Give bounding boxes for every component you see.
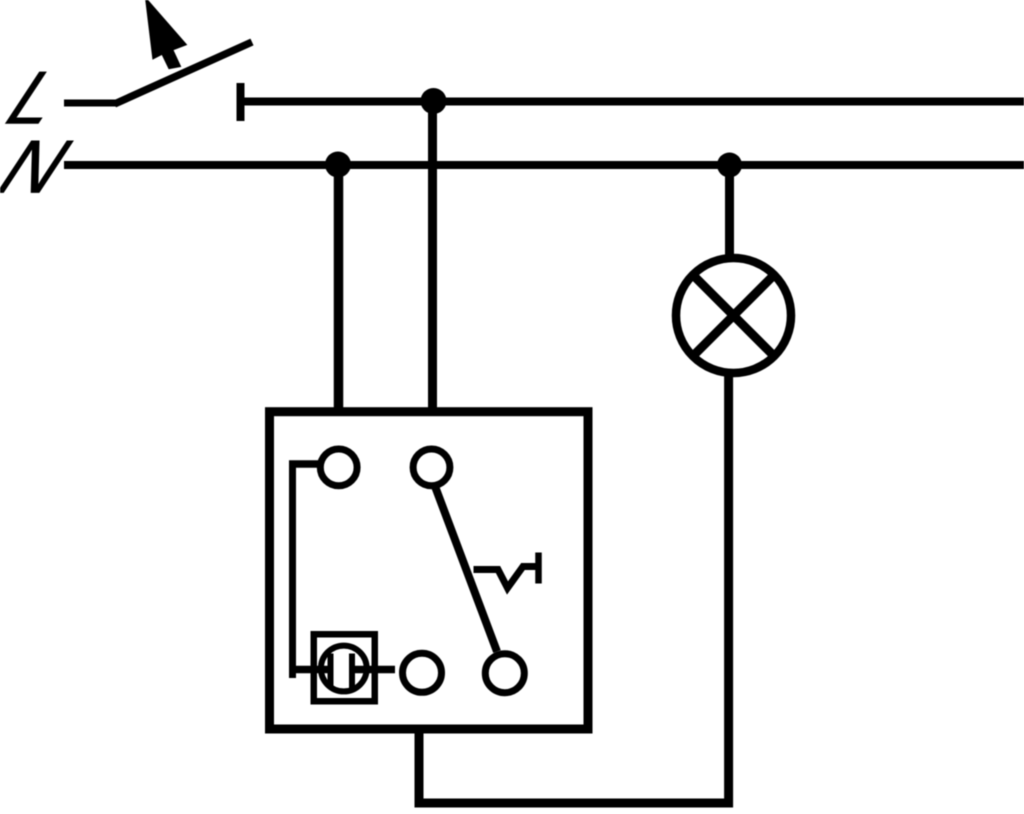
node N label	[0, 125, 82, 209]
terminal circle top-left	[320, 449, 357, 486]
glow lamp right lead	[355, 666, 395, 674]
glow lamp right electrode	[349, 654, 355, 689]
glow lamp circle	[321, 646, 367, 692]
junction dot on N rail left	[325, 152, 351, 178]
wire N rail	[64, 161, 1024, 169]
terminal circle top-right	[413, 449, 450, 486]
junction dot on L rail	[421, 88, 447, 114]
terminal circle bottom-middle	[403, 653, 442, 692]
switch insert box outline	[270, 412, 589, 729]
lamp E1 cross stroke 2	[693, 275, 774, 356]
internal wire stub from bracket to top-left terminal	[289, 460, 318, 468]
wire L lead	[64, 100, 118, 107]
terminal circle bottom-right	[485, 654, 524, 693]
glow lamp square	[314, 634, 375, 701]
wire L rail	[244, 98, 1024, 106]
detent spring symbol	[474, 567, 537, 589]
cursor arrow actuator	[147, 0, 186, 68]
glow lamp left electrode	[328, 654, 334, 689]
wire from lamp bottom down, across, and up from box bottom	[419, 372, 729, 803]
internal vertical wire bracket	[289, 461, 296, 679]
junction dot on N rail right	[717, 153, 742, 178]
switch contact lever inside box	[436, 488, 498, 652]
wire from L junction down to box	[428, 101, 437, 414]
lamp E1 circle	[676, 258, 791, 373]
wire from N junction down to lamp	[725, 165, 734, 260]
node L label	[0, 56, 76, 140]
wire from N junction down to box	[334, 165, 344, 414]
glow lamp left lead	[293, 666, 332, 674]
detent symbol end tick	[535, 553, 542, 584]
switch S1 lever	[115, 42, 253, 104]
terminal tick on L wire	[237, 83, 245, 121]
lamp E1 cross stroke 1	[693, 275, 774, 356]
